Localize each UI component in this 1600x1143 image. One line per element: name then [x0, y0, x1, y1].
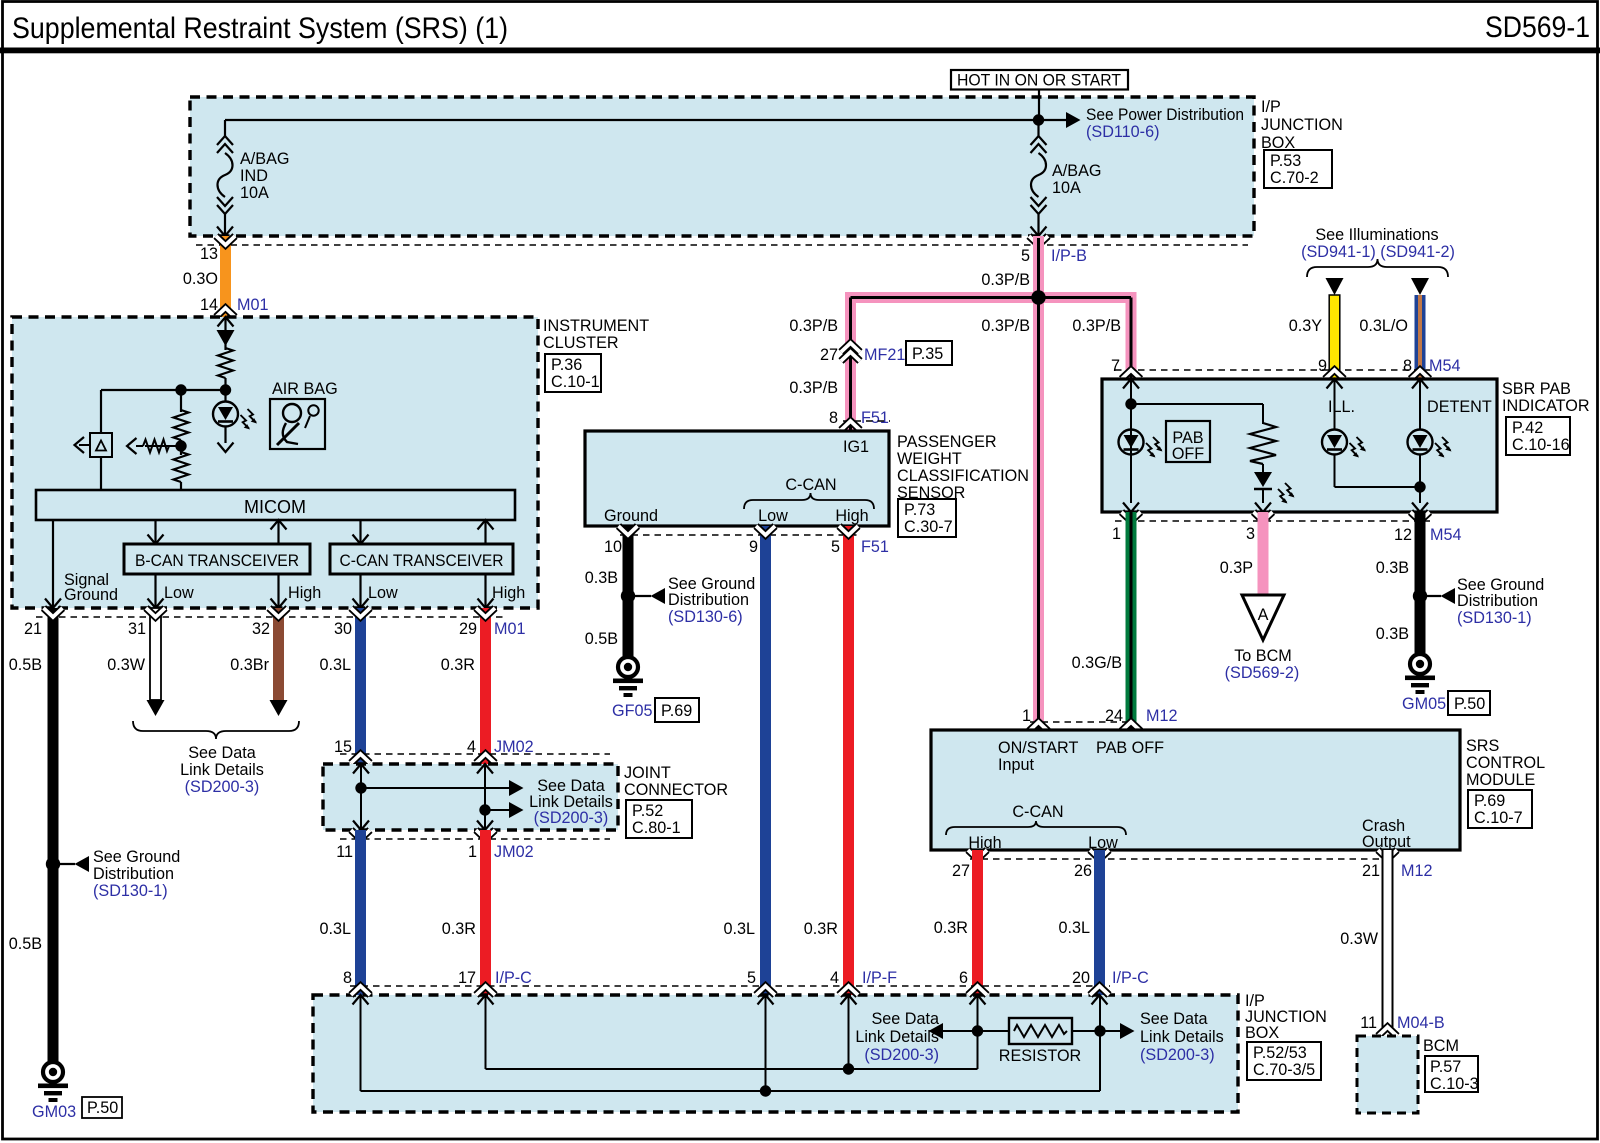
svg-text:0.3P: 0.3P — [1220, 559, 1253, 577]
svg-text:27: 27 — [952, 862, 970, 880]
svg-text:P.35: P.35 — [912, 345, 943, 363]
svg-text:31: 31 — [128, 620, 146, 638]
svg-text:JUNCTION: JUNCTION — [1261, 116, 1343, 134]
svg-text:P.36: P.36 — [551, 356, 582, 374]
svg-text:13: 13 — [200, 245, 218, 263]
svg-text:Supplemental Restraint System: Supplemental Restraint System (SRS) (1) — [12, 12, 508, 45]
svg-text:P.69: P.69 — [661, 702, 692, 720]
svg-text:20: 20 — [1072, 969, 1090, 987]
svg-text:Ground: Ground — [64, 586, 118, 604]
svg-text:5: 5 — [1021, 247, 1030, 265]
svg-text:0.5B: 0.5B — [9, 656, 42, 674]
svg-text:(SD110-6): (SD110-6) — [1086, 123, 1159, 141]
svg-text:(SD941-1) (SD941-2): (SD941-1) (SD941-2) — [1301, 243, 1455, 261]
svg-text:Output: Output — [1362, 833, 1411, 851]
svg-text:P.57: P.57 — [1430, 1058, 1461, 1076]
svg-text:10A: 10A — [1052, 179, 1081, 197]
svg-text:HOT IN ON OR START: HOT IN ON OR START — [957, 72, 1121, 90]
svg-text:1: 1 — [1112, 525, 1121, 543]
svg-text:10A: 10A — [240, 184, 269, 202]
svg-text:IND: IND — [240, 167, 268, 185]
svg-text:I/P-F: I/P-F — [862, 969, 897, 987]
svg-text:BOX: BOX — [1245, 1024, 1279, 1042]
svg-text:(SD130-1): (SD130-1) — [93, 882, 168, 900]
svg-text:ILL.: ILL. — [1328, 398, 1355, 416]
svg-text:0.3P/B: 0.3P/B — [981, 271, 1030, 289]
svg-text:1: 1 — [1022, 707, 1031, 725]
svg-text:PASSENGER: PASSENGER — [897, 433, 997, 451]
svg-text:P.73: P.73 — [904, 501, 935, 519]
svg-text:21: 21 — [24, 620, 42, 638]
svg-text:P.52: P.52 — [632, 802, 663, 820]
svg-text:0.3B: 0.3B — [585, 569, 618, 587]
svg-text:M54: M54 — [1429, 357, 1461, 375]
svg-text:See Illuminations: See Illuminations — [1315, 226, 1438, 244]
svg-text:(SD200-3): (SD200-3) — [185, 778, 260, 796]
svg-text:6: 6 — [959, 969, 968, 987]
svg-text:0.3P/B: 0.3P/B — [1072, 317, 1121, 335]
svg-text:P.50: P.50 — [87, 1099, 118, 1117]
svg-text:GM03: GM03 — [32, 1103, 76, 1121]
svg-text:0.3Br: 0.3Br — [230, 656, 269, 674]
svg-text:27: 27 — [820, 346, 838, 364]
svg-text:See Data: See Data — [1140, 1010, 1208, 1028]
svg-text:P.42: P.42 — [1512, 419, 1543, 437]
svg-text:9: 9 — [749, 538, 758, 556]
svg-text:Distribution: Distribution — [1457, 592, 1538, 610]
svg-text:9: 9 — [1318, 357, 1327, 375]
svg-text:0.3O: 0.3O — [183, 270, 218, 288]
svg-text:4: 4 — [467, 738, 476, 756]
svg-text:11: 11 — [336, 843, 353, 861]
svg-text:0.3L: 0.3L — [319, 656, 351, 674]
svg-text:P.52/53: P.52/53 — [1253, 1044, 1307, 1062]
svg-text:21: 21 — [1362, 862, 1380, 880]
svg-text:See Data: See Data — [188, 744, 256, 762]
svg-text:5: 5 — [747, 969, 756, 987]
svg-text:BCM: BCM — [1423, 1037, 1459, 1055]
svg-text:High: High — [492, 584, 525, 602]
svg-text:Ground: Ground — [604, 507, 658, 525]
svg-text:C-CAN: C-CAN — [785, 476, 836, 494]
svg-text:Input: Input — [998, 756, 1035, 774]
svg-text:ON/START: ON/START — [998, 739, 1078, 757]
svg-text:I/P-B: I/P-B — [1051, 247, 1087, 265]
svg-text:Distribution: Distribution — [668, 591, 749, 609]
svg-text:Distribution: Distribution — [93, 865, 174, 883]
svg-text:SRS: SRS — [1466, 737, 1499, 755]
svg-text:Link Details: Link Details — [1140, 1028, 1224, 1046]
svg-text:WEIGHT: WEIGHT — [897, 450, 962, 468]
svg-text:(SD200-3): (SD200-3) — [534, 809, 609, 827]
svg-text:I/P-C: I/P-C — [1112, 969, 1149, 987]
svg-text:SD569-1: SD569-1 — [1485, 11, 1590, 44]
svg-text:See Data: See Data — [872, 1010, 940, 1028]
svg-text:C-CAN TRANSCEIVER: C-CAN TRANSCEIVER — [340, 552, 504, 570]
svg-text:0.3B: 0.3B — [1376, 559, 1409, 577]
svg-text:M12: M12 — [1146, 707, 1178, 725]
svg-text:MICOM: MICOM — [244, 497, 306, 517]
svg-text:0.3P/B: 0.3P/B — [981, 317, 1030, 335]
svg-text:26: 26 — [1074, 862, 1092, 880]
svg-text:17: 17 — [458, 969, 476, 987]
svg-text:8: 8 — [829, 409, 838, 427]
svg-text:8: 8 — [343, 969, 352, 987]
svg-text:A/BAG: A/BAG — [1052, 162, 1101, 180]
svg-text:(SD130-6): (SD130-6) — [668, 608, 743, 626]
svg-text:GM05: GM05 — [1402, 695, 1446, 713]
svg-text:High: High — [288, 584, 321, 602]
svg-text:15: 15 — [334, 738, 352, 756]
svg-text:OFF: OFF — [1172, 445, 1204, 463]
svg-text:JM02: JM02 — [494, 738, 534, 756]
svg-text:10: 10 — [604, 538, 622, 556]
svg-text:0.3L: 0.3L — [723, 920, 755, 938]
svg-text:8: 8 — [1403, 357, 1412, 375]
svg-text:P.53: P.53 — [1270, 152, 1301, 170]
svg-text:PAB OFF: PAB OFF — [1096, 739, 1164, 757]
svg-text:0.5B: 0.5B — [9, 935, 42, 953]
svg-text:I/P: I/P — [1261, 98, 1281, 116]
svg-text:Low: Low — [758, 507, 788, 525]
svg-text:AIR BAG: AIR BAG — [272, 380, 338, 398]
svg-text:See Power Distribution: See Power Distribution — [1086, 106, 1244, 124]
svg-text:C.70-2: C.70-2 — [1270, 169, 1319, 187]
svg-text:11: 11 — [1360, 1014, 1377, 1032]
svg-text:0.3W: 0.3W — [1340, 930, 1379, 948]
svg-text:M04-B: M04-B — [1397, 1014, 1445, 1032]
svg-text:F51: F51 — [861, 538, 889, 556]
svg-text:C.10-1: C.10-1 — [551, 373, 600, 391]
svg-text:Low: Low — [164, 584, 194, 602]
svg-text:29: 29 — [459, 620, 477, 638]
svg-text:RESISTOR: RESISTOR — [999, 1047, 1081, 1065]
svg-text:Link Details: Link Details — [180, 761, 264, 779]
svg-text:CLASSIFICATION: CLASSIFICATION — [897, 467, 1029, 485]
svg-text:C.70-3/5: C.70-3/5 — [1253, 1061, 1315, 1079]
svg-text:14: 14 — [200, 296, 218, 314]
svg-text:0.3Y: 0.3Y — [1289, 317, 1323, 335]
svg-text:0.3L: 0.3L — [319, 920, 351, 938]
svg-text:30: 30 — [334, 620, 352, 638]
svg-text:M01: M01 — [237, 296, 269, 314]
svg-text:MF21: MF21 — [864, 346, 905, 364]
svg-text:See Ground: See Ground — [93, 848, 180, 866]
svg-text:12: 12 — [1394, 526, 1412, 544]
svg-text:32: 32 — [252, 620, 270, 638]
svg-text:A/BAG: A/BAG — [240, 150, 289, 168]
svg-text:0.5B: 0.5B — [585, 630, 618, 648]
svg-text:C.10-7: C.10-7 — [1474, 809, 1523, 827]
svg-text:0.3R: 0.3R — [442, 920, 476, 938]
svg-text:IG1: IG1 — [843, 438, 869, 456]
svg-text:C.80-1: C.80-1 — [632, 819, 681, 837]
svg-text:0.3L: 0.3L — [1058, 919, 1090, 937]
svg-text:(SD200-3): (SD200-3) — [864, 1046, 939, 1064]
svg-text:B-CAN TRANSCEIVER: B-CAN TRANSCEIVER — [135, 552, 299, 570]
svg-text:JOINT: JOINT — [624, 764, 671, 782]
svg-text:M12: M12 — [1401, 862, 1433, 880]
svg-text:CONTROL: CONTROL — [1466, 754, 1545, 772]
svg-text:5: 5 — [831, 538, 840, 556]
svg-text:0.3W: 0.3W — [107, 656, 146, 674]
svg-text:0.3P/B: 0.3P/B — [789, 379, 838, 397]
svg-text:(SD130-1): (SD130-1) — [1457, 609, 1532, 627]
svg-text:F51: F51 — [861, 409, 889, 427]
svg-text:I/P-C: I/P-C — [495, 969, 532, 987]
svg-text:C.10-3: C.10-3 — [1430, 1075, 1479, 1093]
svg-text:7: 7 — [1111, 357, 1120, 375]
svg-text:DETENT: DETENT — [1427, 398, 1492, 416]
svg-text:0.3R: 0.3R — [934, 919, 968, 937]
svg-text:(SD569-2): (SD569-2) — [1225, 664, 1300, 682]
svg-text:M01: M01 — [494, 620, 526, 638]
svg-text:SBR PAB: SBR PAB — [1502, 380, 1571, 398]
svg-text:CONNECTOR: CONNECTOR — [624, 781, 728, 799]
svg-text:(SD200-3): (SD200-3) — [1140, 1046, 1215, 1064]
svg-text:A: A — [1258, 606, 1269, 624]
svg-text:P.69: P.69 — [1474, 792, 1505, 810]
svg-text:P.50: P.50 — [1454, 695, 1485, 713]
svg-text:To BCM: To BCM — [1234, 647, 1292, 665]
svg-text:M54: M54 — [1430, 526, 1462, 544]
svg-text:C.10-16: C.10-16 — [1512, 436, 1570, 454]
svg-text:JM02: JM02 — [494, 843, 534, 861]
svg-text:High: High — [835, 507, 868, 525]
svg-text:INSTRUMENT: INSTRUMENT — [543, 317, 649, 335]
svg-text:0.3B: 0.3B — [1376, 625, 1409, 643]
svg-text:1: 1 — [468, 843, 477, 861]
svg-text:4: 4 — [830, 969, 839, 987]
svg-text:Link Details: Link Details — [855, 1028, 939, 1046]
svg-text:3: 3 — [1246, 525, 1255, 543]
svg-text:C.30-7: C.30-7 — [904, 518, 953, 536]
svg-text:MODULE: MODULE — [1466, 771, 1535, 789]
svg-text:GF05: GF05 — [612, 702, 653, 720]
svg-text:0.3R: 0.3R — [441, 656, 475, 674]
svg-text:0.3R: 0.3R — [804, 920, 838, 938]
svg-text:CLUSTER: CLUSTER — [543, 334, 619, 352]
svg-text:Low: Low — [368, 584, 398, 602]
svg-text:0.3G/B: 0.3G/B — [1072, 654, 1122, 672]
svg-text:C-CAN: C-CAN — [1012, 803, 1063, 821]
svg-text:0.3L/O: 0.3L/O — [1359, 317, 1408, 335]
svg-text:24: 24 — [1105, 707, 1123, 725]
svg-text:0.3P/B: 0.3P/B — [789, 317, 838, 335]
svg-text:INDICATOR: INDICATOR — [1502, 397, 1590, 415]
